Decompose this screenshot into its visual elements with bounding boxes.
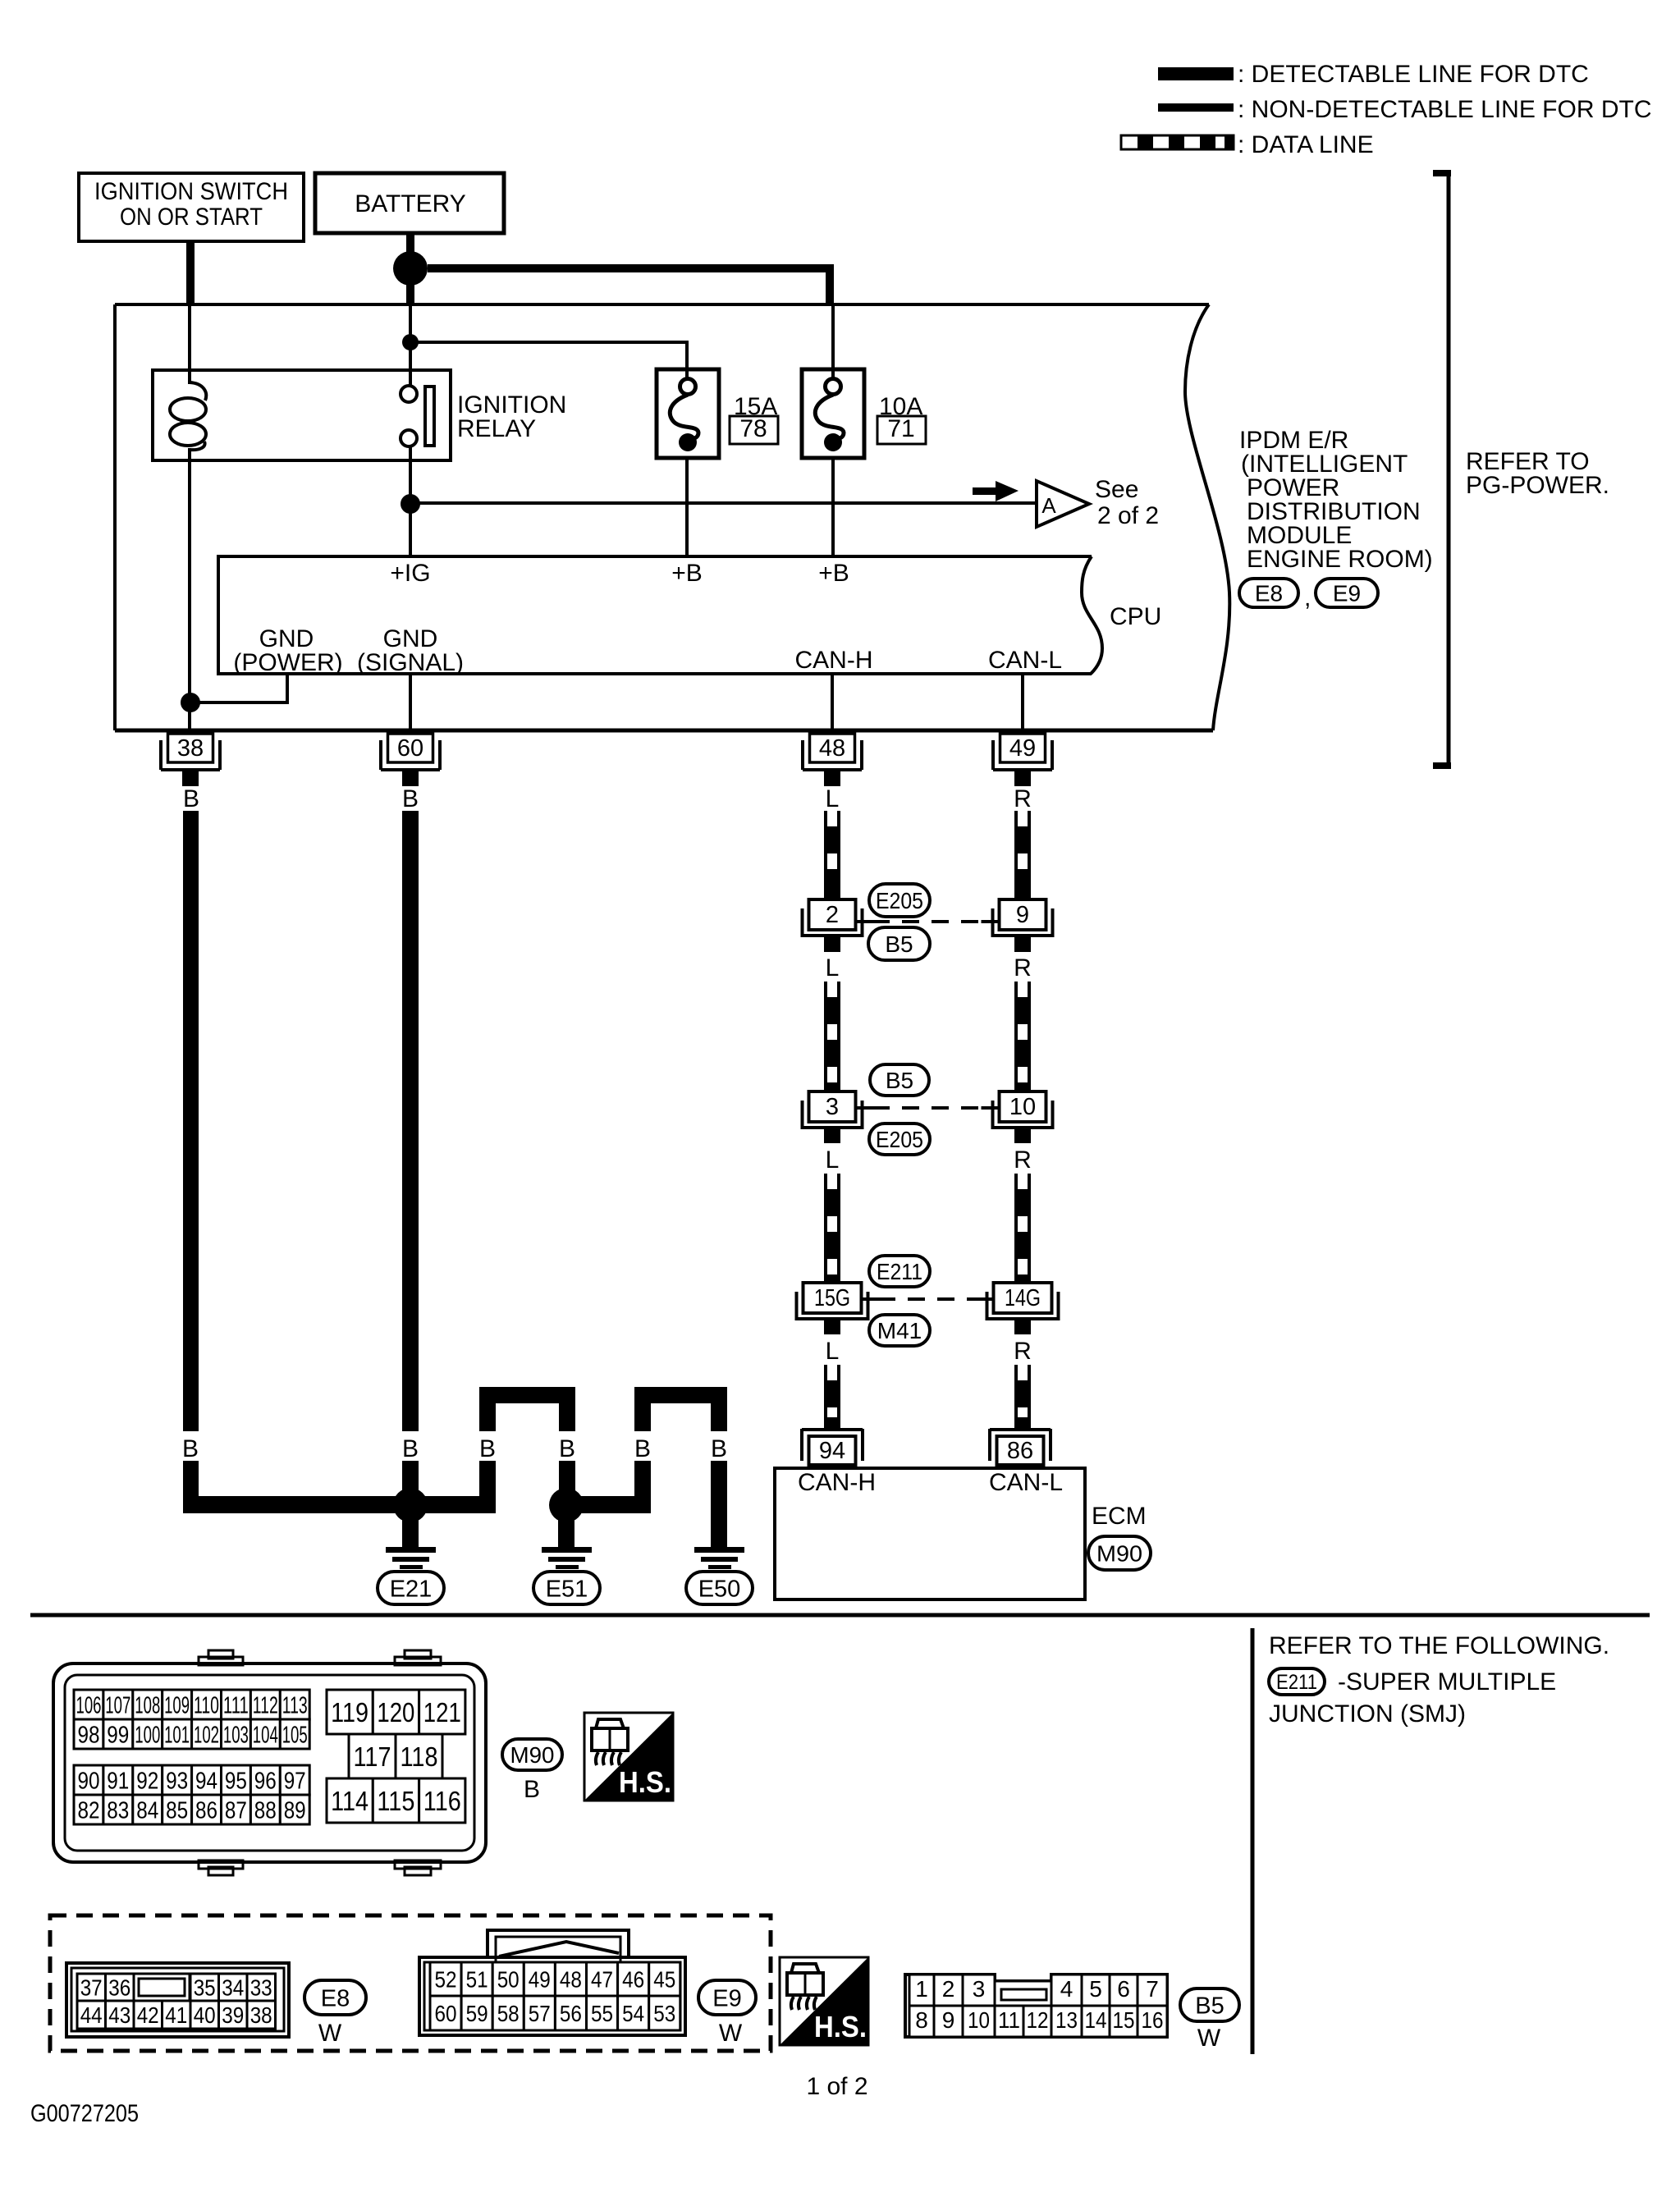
- svg-text:B5: B5: [885, 931, 913, 957]
- svg-text:E8: E8: [321, 1985, 350, 2011]
- wire stub below connector 15G: [824, 1320, 840, 1334]
- svg-text:ENGINE ROOM): ENGINE ROOM): [1247, 546, 1433, 573]
- svg-text:51: 51: [466, 1967, 488, 1993]
- svg-text:94: 94: [195, 1768, 217, 1794]
- svg-text:58: 58: [497, 2001, 520, 2026]
- oval M90 (ECM connector ref): [1088, 1536, 1151, 1570]
- svg-text:R: R: [1014, 1146, 1032, 1174]
- svg-text:L: L: [826, 954, 840, 982]
- svg-text:52: 52: [435, 1967, 457, 1993]
- fuse number box 78: [730, 415, 778, 444]
- svg-text:42: 42: [137, 2002, 159, 2028]
- battery box: [315, 173, 504, 233]
- svg-text:L: L: [826, 1146, 840, 1174]
- svg-text:See: See: [1095, 476, 1138, 503]
- svg-text:E9: E9: [712, 1985, 741, 2011]
- IPDM pin connector 38: [161, 734, 220, 770]
- svg-text:86: 86: [1007, 1438, 1033, 1464]
- svg-text:112: 112: [253, 1692, 278, 1718]
- svg-text:W: W: [719, 2020, 743, 2047]
- svg-text:G00727205: G00727205: [30, 2100, 139, 2127]
- svg-text:11: 11: [998, 2007, 1020, 2033]
- svg-text:41: 41: [165, 2002, 187, 2028]
- svg-text:ON OR START: ON OR START: [120, 204, 263, 231]
- wire: 10A fuse feed below thick bus: [831, 304, 835, 378]
- M90 shell tabs: [199, 1650, 441, 1875]
- svg-text:: NON-DETECTABLE LINE FOR DTC: : NON-DETECTABLE LINE FOR DTC: [1238, 96, 1652, 123]
- wire stub below pin 60: [402, 771, 419, 786]
- svg-text:B: B: [402, 1435, 419, 1462]
- note: refer to the following: [1269, 1632, 1609, 1659]
- dashed link 15G to 14G: [878, 1297, 983, 1301]
- svg-text:48: 48: [819, 735, 845, 762]
- fuse number box 71: [877, 415, 926, 444]
- oval B5 label: [1180, 1988, 1239, 2021]
- svg-text:3: 3: [973, 1976, 986, 2002]
- svg-text:90: 90: [78, 1768, 100, 1794]
- wire: thin battery line inside IPDM down to relay contact: [409, 304, 412, 387]
- dashed link 2 to 9: [872, 920, 989, 923]
- wire: battery to junction (thick): [406, 233, 414, 256]
- legend: non-detectable line sample: [1158, 103, 1234, 112]
- svg-text:119: 119: [331, 1697, 369, 1728]
- wire: relay contact output down to CPU +IG: [409, 446, 412, 556]
- wire stub below pin 38: [182, 771, 199, 786]
- svg-text:89: 89: [284, 1797, 306, 1824]
- svg-text:40: 40: [194, 2002, 216, 2028]
- svg-text:B: B: [182, 1435, 199, 1462]
- wire stub below connector 3: [824, 1129, 840, 1143]
- svg-text:(POWER): (POWER): [233, 649, 342, 676]
- svg-text:45: 45: [653, 1967, 675, 1993]
- svg-text:103: 103: [223, 1722, 249, 1748]
- svg-text:16: 16: [1142, 2007, 1164, 2033]
- svg-text:B: B: [402, 785, 419, 812]
- oval E211 (row3 upper): [869, 1256, 930, 1287]
- H.S. icon (M90): [584, 1713, 673, 1801]
- svg-text:PG-POWER.: PG-POWER.: [1466, 472, 1609, 499]
- svg-text:E50: E50: [698, 1576, 741, 1602]
- label: IPDM E/R block: [1239, 427, 1433, 573]
- svg-text:10: 10: [968, 2007, 990, 2033]
- svg-text:M41: M41: [877, 1318, 922, 1343]
- svg-text:85: 85: [166, 1797, 188, 1824]
- svg-text:49: 49: [529, 1967, 551, 1993]
- svg-text:82: 82: [78, 1797, 100, 1824]
- legend: data line sample: [1121, 135, 1234, 149]
- svg-text:87: 87: [225, 1797, 247, 1824]
- node: ground junction dot E21: [393, 1488, 428, 1522]
- wire: battery junction down to IPDM edge (thick): [406, 282, 414, 305]
- wire: horizontal ground bus from 38: [183, 1496, 398, 1513]
- svg-text:57: 57: [529, 2001, 551, 2026]
- relay contact pins: [401, 386, 417, 402]
- ECM pin connector 94: [802, 1429, 863, 1465]
- svg-text:IGNITION SWITCH: IGNITION SWITCH: [94, 178, 288, 205]
- connector 10: [982, 1091, 1053, 1129]
- svg-text:108: 108: [135, 1692, 160, 1718]
- data line wire 10 to 14G: [1014, 1174, 1031, 1283]
- svg-text:W: W: [318, 2020, 342, 2047]
- svg-text:86: 86: [195, 1797, 217, 1824]
- wire: junction to 15A fuse: [410, 342, 687, 379]
- connector 15G: [797, 1283, 880, 1320]
- oval E9 label: [698, 1980, 756, 2015]
- IPDM pin connector 48: [803, 734, 862, 770]
- wire: GND(POWER) to coil line junction: [190, 674, 287, 702]
- svg-text:15G: 15G: [814, 1285, 850, 1311]
- svg-text:33: 33: [250, 1975, 272, 2001]
- svg-text:43: 43: [108, 2002, 130, 2028]
- wire stub below connector 10: [1014, 1129, 1031, 1143]
- svg-text:(SIGNAL): (SIGNAL): [357, 649, 464, 676]
- svg-text:R: R: [1014, 954, 1032, 982]
- svg-text:46: 46: [622, 1967, 644, 1993]
- divider line bottom right: [1251, 1628, 1255, 2054]
- svg-text:E205: E205: [876, 1127, 923, 1152]
- svg-text:M90: M90: [510, 1742, 555, 1768]
- ground name oval E50: [686, 1572, 753, 1604]
- svg-text:35: 35: [194, 1975, 216, 2001]
- svg-text:83: 83: [107, 1797, 129, 1824]
- svg-text:114: 114: [331, 1786, 369, 1816]
- oval E205 (row1 upper): [869, 884, 930, 917]
- svg-text:B: B: [183, 785, 199, 812]
- svg-text:84: 84: [136, 1797, 158, 1824]
- svg-text:8: 8: [915, 2007, 928, 2033]
- svg-text:92: 92: [136, 1768, 158, 1794]
- svg-text:56: 56: [560, 2001, 582, 2026]
- data line wire 15G to 94: [824, 1365, 840, 1430]
- svg-text:B: B: [559, 1435, 575, 1462]
- svg-text:50: 50: [497, 1967, 520, 1993]
- connector 2: [803, 899, 874, 937]
- dashed box around E8/E9: [50, 1915, 771, 2051]
- svg-text:39: 39: [222, 2002, 244, 2028]
- oval M41 (row3 lower): [869, 1315, 930, 1346]
- svg-text:121: 121: [423, 1697, 461, 1728]
- oval B5 (row1 lower): [868, 927, 930, 960]
- svg-text:E211: E211: [877, 1259, 922, 1284]
- wire: relay coil to gnd junction and connector 38: [188, 448, 191, 730]
- svg-text:RELAY: RELAY: [457, 415, 536, 442]
- svg-text:98: 98: [78, 1722, 100, 1748]
- svg-text:96: 96: [254, 1768, 277, 1794]
- svg-text:14G: 14G: [1005, 1285, 1041, 1311]
- ECM box: [775, 1468, 1085, 1599]
- fuse 15A / 78: [657, 369, 719, 458]
- wire stub below connector 14G: [1014, 1320, 1031, 1334]
- svg-text:+IG: +IG: [390, 560, 430, 587]
- svg-text:102: 102: [194, 1722, 219, 1748]
- bracket: refer to PG-POWER: [1433, 170, 1451, 769]
- wire stub below pin 48: [824, 771, 840, 786]
- svg-text:15: 15: [1113, 2007, 1135, 2033]
- wire: CAN-L to pin 49: [1021, 674, 1024, 730]
- svg-text:CPU: CPU: [1110, 603, 1161, 630]
- ECM pin connector 86: [990, 1429, 1051, 1465]
- svg-text:91: 91: [107, 1768, 129, 1794]
- svg-text:101: 101: [164, 1722, 190, 1748]
- svg-text:53: 53: [653, 2001, 675, 2026]
- svg-text:H.S.: H.S.: [814, 2010, 867, 2043]
- wire stub below connector 9: [1014, 937, 1031, 952]
- IPDM E/R box outline with torn right edge: [115, 304, 1229, 730]
- svg-text:5: 5: [1089, 1976, 1102, 2002]
- node: ground junction dot E51: [549, 1488, 584, 1522]
- svg-text:E21: E21: [390, 1576, 433, 1602]
- svg-text:B: B: [524, 1776, 540, 1803]
- connector E8: [66, 1963, 289, 2037]
- svg-text:H.S.: H.S.: [619, 1765, 671, 1799]
- wire: thick bus from battery junction right and down to 10A fuse: [428, 268, 830, 300]
- data line wire 9 to 10: [1014, 982, 1031, 1091]
- svg-text:3: 3: [826, 1094, 839, 1120]
- svg-text:60: 60: [435, 2001, 457, 2026]
- connector E9: [419, 1930, 685, 2035]
- svg-text:106: 106: [76, 1692, 102, 1718]
- wire: ignition switch to IPDM (thick): [186, 241, 195, 305]
- svg-text:,: ,: [1304, 584, 1311, 611]
- svg-text:B: B: [479, 1435, 496, 1462]
- wire: output line to triangle A: [410, 501, 1037, 505]
- svg-text:120: 120: [377, 1697, 414, 1728]
- dashed link 3 to 10: [872, 1106, 989, 1110]
- svg-text:2 of 2: 2 of 2: [1097, 502, 1159, 529]
- svg-text:7: 7: [1146, 1976, 1159, 2002]
- svg-text:95: 95: [225, 1768, 247, 1794]
- wire: 15A fuse output to CPU +B: [685, 458, 689, 556]
- connector 9: [982, 899, 1053, 937]
- svg-text:9: 9: [942, 2007, 955, 2033]
- connector M90 shell: [53, 1663, 486, 1862]
- fuse 10A / 71: [802, 369, 864, 458]
- svg-text:99: 99: [107, 1722, 129, 1748]
- svg-text:104: 104: [253, 1722, 278, 1748]
- ground symbol E51: [542, 1520, 592, 1569]
- svg-text:CAN-H: CAN-H: [795, 647, 873, 674]
- svg-text:111: 111: [223, 1692, 249, 1718]
- wire: bus dot to U1 left leg: [423, 1496, 488, 1513]
- relay contact bar: [425, 387, 434, 446]
- svg-text:110: 110: [194, 1692, 219, 1718]
- svg-text:34: 34: [222, 1975, 244, 2001]
- connector 3: [803, 1091, 874, 1129]
- wire stub above pin 86: [1014, 1417, 1031, 1430]
- svg-text:E8: E8: [1255, 581, 1283, 606]
- svg-text:R: R: [1014, 1338, 1032, 1365]
- svg-text:CAN-L: CAN-L: [989, 1469, 1063, 1496]
- wire: pin 38 ground run (thick): [183, 811, 199, 1431]
- svg-text:105: 105: [282, 1722, 308, 1748]
- relay coil: [170, 382, 206, 450]
- ground symbol E50: [694, 1547, 744, 1569]
- CPU box with torn right edge: [218, 556, 1102, 674]
- svg-text:118: 118: [401, 1741, 438, 1772]
- svg-text:37: 37: [80, 1975, 103, 2001]
- svg-text:CAN-L: CAN-L: [988, 647, 1062, 674]
- node: junction dot feeding 15A fuse line: [402, 334, 419, 350]
- connector B5: [905, 1975, 1167, 2037]
- svg-text:36: 36: [108, 1975, 130, 2001]
- oval E9 ref: [1316, 579, 1378, 607]
- arrow before triangle A: [973, 481, 1019, 501]
- wire: ign line into relay coil: [188, 304, 191, 384]
- M90 pin grid right (119-121 / 117-118 / 114-116): [327, 1690, 465, 1823]
- H.S. icon (E8/E9): [780, 1957, 868, 2045]
- svg-text:71: 71: [887, 415, 914, 442]
- wire: 10A fuse output to CPU +B: [831, 458, 835, 556]
- svg-text:60: 60: [397, 735, 423, 762]
- node: relay output junction: [401, 494, 420, 514]
- ground symbol E21: [386, 1520, 436, 1569]
- wire: CAN-H to pin 48: [831, 674, 834, 730]
- svg-text:44: 44: [80, 2002, 103, 2028]
- svg-text:59: 59: [466, 2001, 488, 2026]
- svg-text:M90: M90: [1096, 1541, 1142, 1567]
- svg-text:10: 10: [1009, 1094, 1036, 1120]
- svg-text:13: 13: [1055, 2007, 1078, 2033]
- svg-text:1 of 2: 1 of 2: [806, 2073, 867, 2100]
- oval M90 label: [502, 1739, 562, 1770]
- ignition switch box: [79, 173, 304, 241]
- svg-text:115: 115: [377, 1786, 414, 1816]
- wire stub above pin 94: [824, 1417, 840, 1430]
- svg-text:88: 88: [254, 1797, 277, 1824]
- data line wire 3 to 15G: [824, 1174, 840, 1283]
- svg-text:94: 94: [819, 1438, 845, 1464]
- ignition relay box: [153, 370, 451, 460]
- svg-text:-SUPER MULTIPLE: -SUPER MULTIPLE: [1338, 1668, 1556, 1695]
- wire: E50 ground drop: [711, 1461, 727, 1549]
- svg-text:107: 107: [105, 1692, 130, 1718]
- svg-text:12: 12: [1027, 2007, 1049, 2033]
- svg-text:B5: B5: [886, 1068, 913, 1093]
- svg-text:55: 55: [591, 2001, 613, 2026]
- wire: inverted-U jumper 1: [479, 1387, 575, 1513]
- wire stub below connector 2: [824, 937, 840, 952]
- ground name oval E51: [533, 1572, 600, 1604]
- svg-text:: DATA LINE: : DATA LINE: [1238, 131, 1374, 158]
- svg-text:38: 38: [177, 735, 204, 762]
- svg-text:CAN-H: CAN-H: [798, 1469, 876, 1496]
- oval E211 note ref: [1269, 1668, 1325, 1695]
- svg-text:48: 48: [560, 1967, 582, 1993]
- svg-text:E51: E51: [546, 1576, 588, 1602]
- wire: GND(SIGNAL) to pin 60: [409, 674, 412, 730]
- wire stub below pin 49: [1014, 771, 1031, 786]
- svg-text:E9: E9: [1333, 581, 1361, 606]
- oval E8 ref: [1239, 579, 1298, 607]
- svg-text:+B: +B: [671, 560, 703, 587]
- svg-text:REFER TO THE FOLLOWING.: REFER TO THE FOLLOWING.: [1269, 1632, 1609, 1659]
- svg-text:117: 117: [354, 1741, 391, 1772]
- svg-text:54: 54: [622, 2001, 644, 2026]
- svg-text:78: 78: [739, 415, 767, 442]
- data line wire 2 to 3: [824, 982, 840, 1091]
- svg-text:116: 116: [423, 1786, 461, 1816]
- svg-text:14: 14: [1085, 2007, 1107, 2033]
- svg-text:ECM: ECM: [1092, 1503, 1147, 1530]
- svg-text:2: 2: [826, 902, 839, 928]
- M90 pin grid lower-left (90-97 / 82-89): [74, 1765, 309, 1824]
- svg-text:+B: +B: [818, 560, 849, 587]
- svg-text:49: 49: [1009, 735, 1036, 762]
- svg-text:BATTERY: BATTERY: [355, 190, 466, 217]
- svg-text:47: 47: [591, 1967, 613, 1993]
- node: battery junction dot: [393, 251, 428, 286]
- svg-text:A: A: [1041, 493, 1056, 518]
- svg-text:4: 4: [1060, 1976, 1073, 2002]
- oval E205 (row2 lower): [869, 1123, 930, 1155]
- svg-text:9: 9: [1016, 902, 1029, 928]
- svg-text:1: 1: [915, 1976, 928, 2002]
- svg-text:100: 100: [135, 1722, 160, 1748]
- wire: inverted-U jumper 2: [634, 1387, 727, 1513]
- triangle A (see 2 of 2): [1037, 481, 1089, 527]
- svg-text:B5: B5: [1195, 1993, 1224, 2019]
- connector 14G: [976, 1283, 1059, 1320]
- wire: E51 dot to U2 left leg: [579, 1496, 651, 1513]
- legend: detectable line sample: [1158, 67, 1234, 80]
- svg-text:B: B: [634, 1435, 651, 1462]
- svg-text:113: 113: [282, 1692, 308, 1718]
- svg-text:2: 2: [942, 1976, 955, 2002]
- node: gnd power junction dot: [181, 693, 200, 712]
- oval B5 (row2 upper): [870, 1064, 929, 1096]
- svg-text:L: L: [826, 1338, 840, 1365]
- svg-text:38: 38: [250, 2002, 272, 2028]
- IPDM pin connector 60: [381, 734, 440, 770]
- svg-text:6: 6: [1117, 1976, 1130, 2002]
- ground name oval E21: [378, 1572, 444, 1604]
- svg-text:R: R: [1014, 785, 1032, 812]
- IPDM pin connector 49: [993, 734, 1052, 770]
- svg-text:97: 97: [284, 1768, 306, 1794]
- M90 pin grid upper-left (106-113 / 98-105): [74, 1690, 309, 1749]
- data line wire 14G to 86: [1014, 1365, 1031, 1430]
- svg-text:93: 93: [166, 1768, 188, 1794]
- svg-text:W: W: [1197, 2025, 1221, 2052]
- wire: pin 60 ground run (thick): [402, 811, 419, 1431]
- svg-text:E205: E205: [876, 888, 923, 913]
- svg-text:B: B: [711, 1435, 727, 1462]
- separator line: [30, 1613, 1650, 1618]
- oval E8 label: [304, 1980, 366, 2015]
- svg-text:: DETECTABLE LINE FOR DTC: : DETECTABLE LINE FOR DTC: [1238, 61, 1589, 88]
- svg-text:E211: E211: [1276, 1671, 1317, 1694]
- svg-text:JUNCTION (SMJ): JUNCTION (SMJ): [1269, 1700, 1466, 1728]
- svg-text:L: L: [826, 785, 840, 812]
- svg-text:109: 109: [164, 1692, 190, 1718]
